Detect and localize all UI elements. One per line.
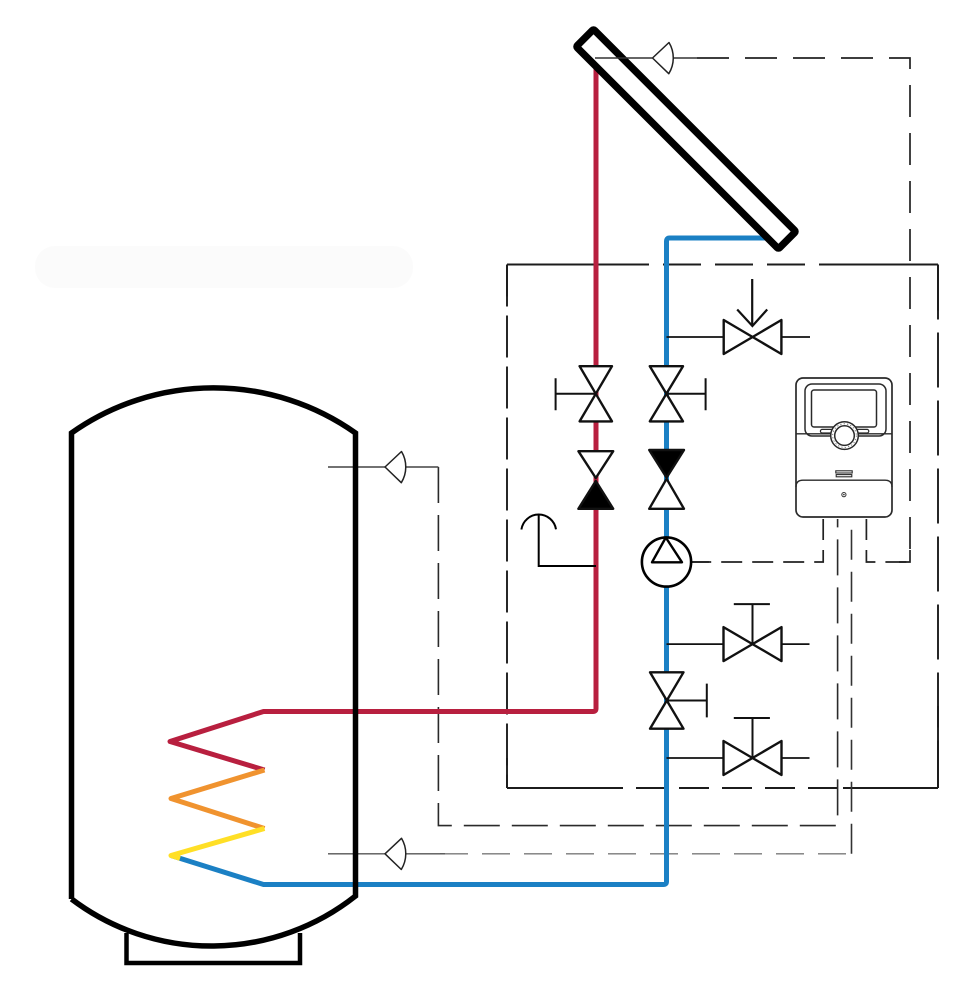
- gate valve on blue pipe: [650, 366, 683, 421]
- pump: [642, 537, 691, 586]
- solar station dashed enclosure box: [507, 264, 938, 266]
- wire tank top sensor to controller: [438, 467, 837, 826]
- solar supply pipe (hot, red): [170, 68, 596, 770]
- controller screen: [812, 390, 877, 427]
- controller lower cover line: [796, 480, 892, 487]
- storage tank: [72, 388, 356, 946]
- coil middle segment (orange): [171, 770, 265, 829]
- wire collector sensor lead (solid): [595, 57, 697, 59]
- tank pedestal: [127, 933, 301, 963]
- balancing valve on blue pipe (lower): [650, 672, 684, 728]
- wire tank bottom sensor to controller (gray): [440, 853, 852, 855]
- controller body: [796, 378, 892, 517]
- wire controller to collector loop: [866, 519, 910, 562]
- drain / siphon symbol: [521, 515, 556, 530]
- collector sensor flag: [653, 43, 674, 74]
- solar return pipe (cold, blue): [171, 238, 770, 885]
- gate valve on red pipe: [580, 366, 612, 421]
- controller split line: [796, 433, 892, 435]
- check valve on blue pipe: [649, 450, 684, 509]
- wire collector sensor to controller (dashed, right loop): [697, 58, 910, 562]
- solar collector: [576, 29, 796, 249]
- shutoff valve lower right: [667, 757, 810, 759]
- controller buttons: [820, 429, 834, 433]
- controller bezel: [805, 384, 886, 436]
- tank top sensor flag: [385, 452, 406, 483]
- fill valve with arrow (top): [667, 336, 811, 338]
- wire tank bottom vertical riser: [851, 519, 853, 854]
- sensor lead tank bottom: [328, 853, 445, 855]
- wire corner at collector loop: [899, 550, 910, 562]
- coil lower segment (yellow): [171, 829, 265, 859]
- tank bottom sensor flag: [385, 838, 406, 869]
- sensor lead tank top: [328, 466, 438, 468]
- controller screw: [842, 493, 846, 497]
- controller vents: [836, 471, 852, 473]
- wire controller to pump: [692, 519, 823, 562]
- controller knob: [831, 422, 859, 450]
- check valve on red pipe: [578, 451, 613, 509]
- faint erased watermark band: [35, 246, 413, 288]
- shutoff valve upper right: [667, 643, 810, 645]
